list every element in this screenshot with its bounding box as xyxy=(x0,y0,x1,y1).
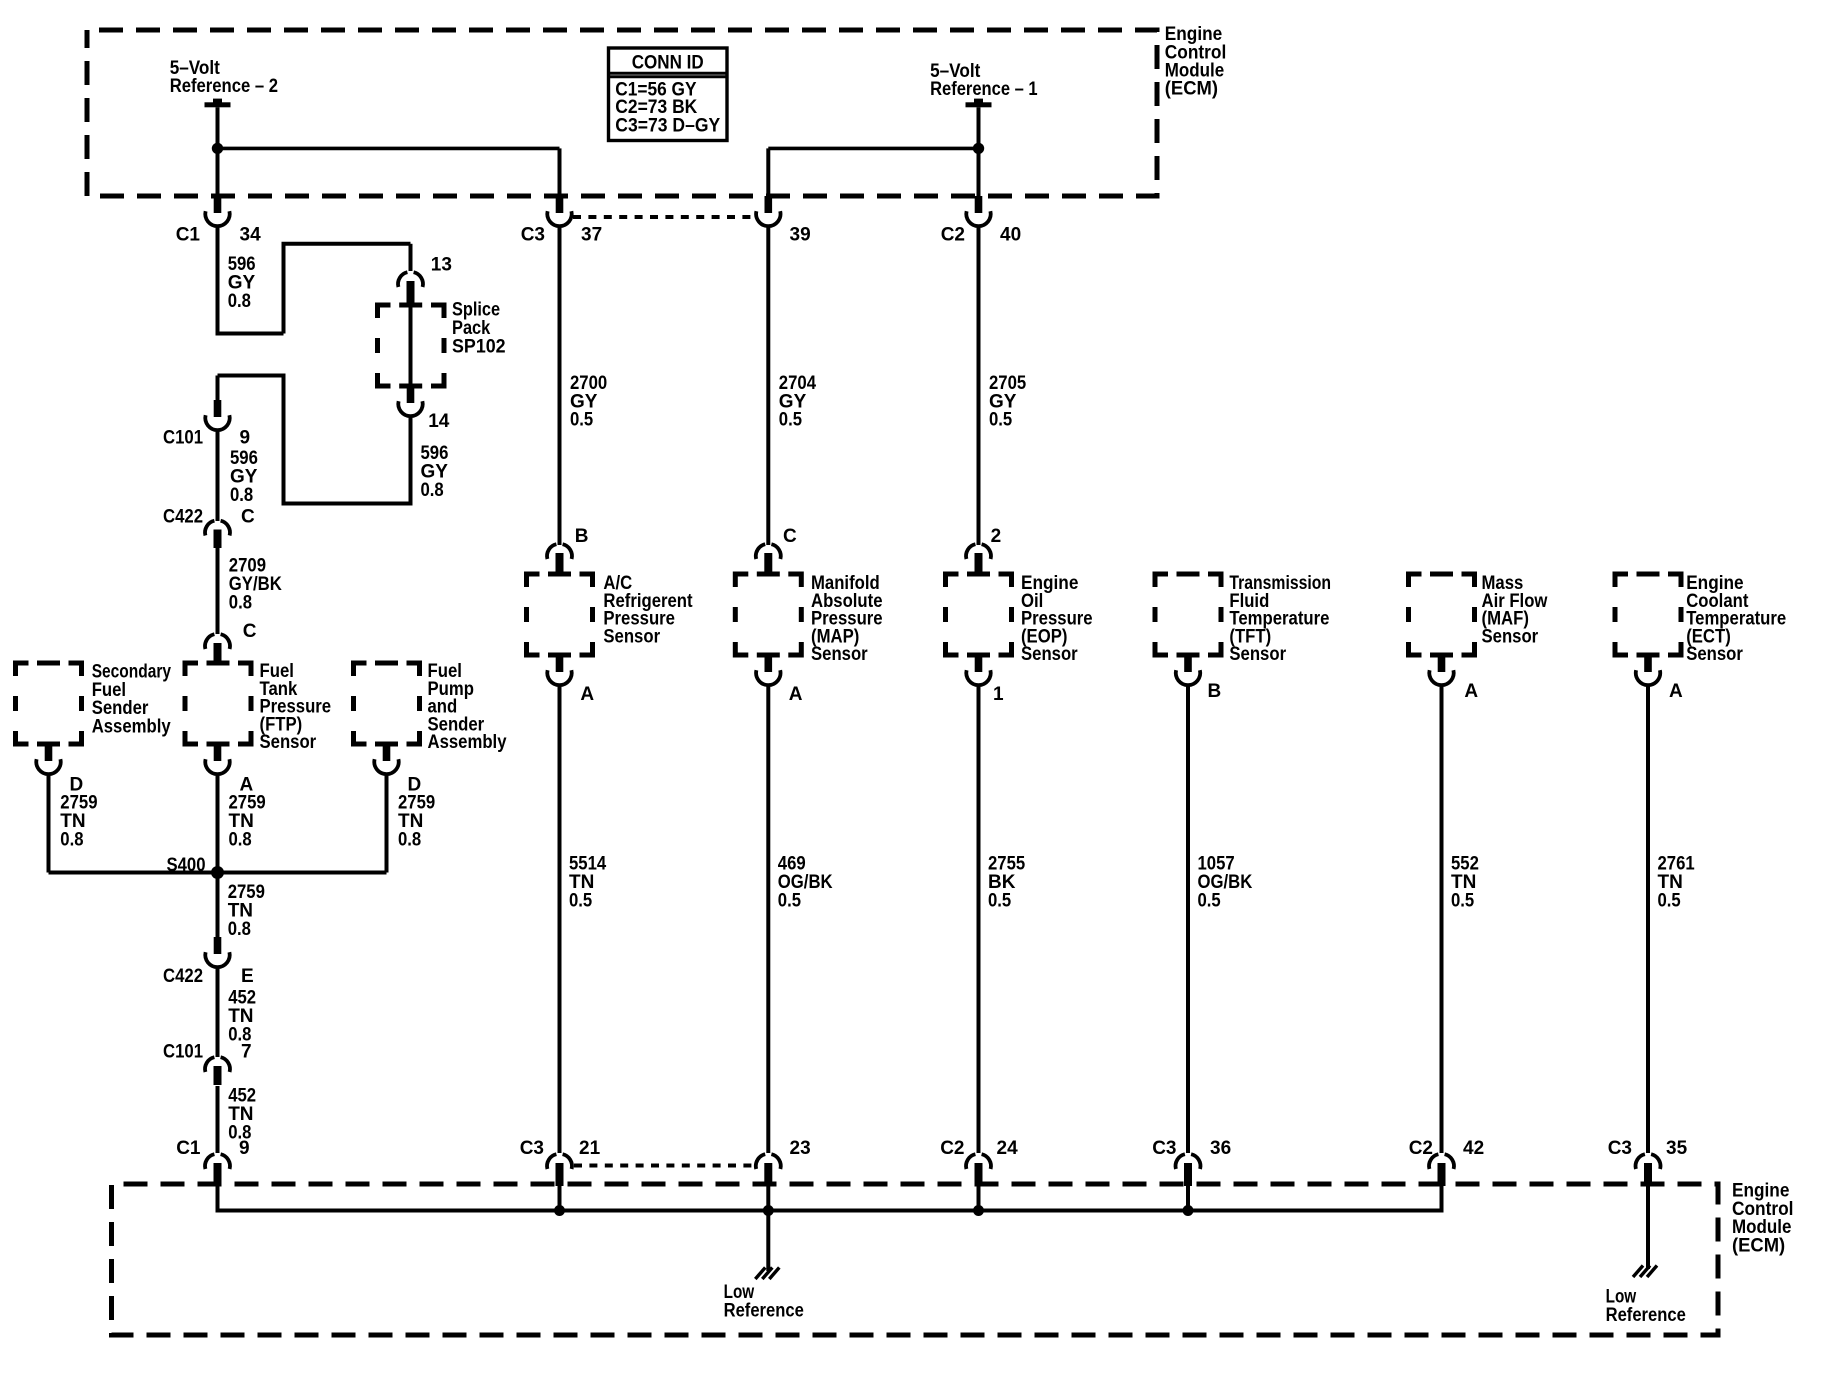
svg-text:C3: C3 xyxy=(1152,1138,1176,1159)
wire 2700 GY 0.5 xyxy=(558,226,562,545)
svg-text:0.8: 0.8 xyxy=(229,830,252,851)
connector sensor bottom pin A (x=1441.5) xyxy=(1438,655,1446,672)
svg-text:Assembly: Assembly xyxy=(92,716,171,737)
svg-text:C3=73 D–GY: C3=73 D–GY xyxy=(615,115,720,136)
wire 452 TN upper xyxy=(216,967,220,1057)
svg-text:C3: C3 xyxy=(1608,1138,1632,1159)
svg-text:0.5: 0.5 xyxy=(570,410,594,431)
svg-text:Sensor: Sensor xyxy=(1482,626,1539,647)
connector sensor top pin C xyxy=(756,544,765,559)
svg-text:40: 40 xyxy=(1000,224,1021,245)
wire drop to bus (x=978.5) xyxy=(977,1186,981,1211)
connector secondary sender pin D xyxy=(45,744,53,761)
wire 2761 TN xyxy=(1646,685,1650,1153)
svg-text:37: 37 xyxy=(581,224,602,245)
node bus junction (x=1188.0) xyxy=(1183,1205,1194,1216)
svg-text:C2: C2 xyxy=(1409,1138,1433,1159)
connector C101 pin 9 xyxy=(214,400,222,417)
svg-text:0.5: 0.5 xyxy=(989,410,1013,431)
wire secondary sender to S400 xyxy=(47,774,51,873)
svg-text:9: 9 xyxy=(239,1138,250,1159)
wire 5V ref-2 horizontal to C3-37 xyxy=(218,147,560,151)
wire down to pin 39 xyxy=(766,148,770,196)
node junction 5V ref-2 xyxy=(212,143,223,154)
wire 596 to C422 xyxy=(216,430,220,521)
svg-text:C: C xyxy=(241,506,255,527)
wire FTP to S400 xyxy=(216,774,220,873)
connector C101 pin 7 xyxy=(205,1057,214,1072)
svg-text:Sensor: Sensor xyxy=(1229,644,1286,665)
wire down to C3-37 xyxy=(558,148,562,196)
svg-text:23: 23 xyxy=(790,1138,811,1159)
node bus junction (x=978.5) xyxy=(973,1205,984,1216)
svg-text:36: 36 xyxy=(1210,1138,1231,1159)
dotted connector join 21-23 xyxy=(574,1164,753,1168)
ground low reference (right) xyxy=(1633,1266,1643,1278)
wire drop to bus (x=559.5) xyxy=(558,1186,562,1211)
wire fuel pump to S400 xyxy=(385,774,389,873)
svg-text:0.5: 0.5 xyxy=(778,890,802,911)
svg-text:C2: C2 xyxy=(941,224,965,245)
svg-text:B: B xyxy=(575,526,589,547)
connector sensor top pin B xyxy=(547,544,556,559)
connector C2 pin 24 xyxy=(966,1154,975,1169)
wire 1057 OG/BK xyxy=(1186,685,1190,1153)
svg-text:C1: C1 xyxy=(176,224,201,245)
connector C3 pin 21 xyxy=(547,1154,556,1169)
wire 452 TN lower xyxy=(216,1086,220,1153)
svg-text:0.8: 0.8 xyxy=(230,485,253,506)
wire 2705 GY 0.5 xyxy=(977,226,981,545)
ground low reference (left) xyxy=(755,1268,765,1280)
wire 2759 below S400 xyxy=(216,873,220,940)
svg-text:0.5: 0.5 xyxy=(779,410,803,431)
svg-text:0.8: 0.8 xyxy=(421,480,444,501)
svg-text:1: 1 xyxy=(993,684,1004,705)
connector C1 pin 34 xyxy=(214,196,222,213)
ECT sensor box (dashed) xyxy=(1615,574,1681,655)
CONN ID table box xyxy=(609,48,728,141)
svg-text:14: 14 xyxy=(428,411,450,432)
wire 2755 BK xyxy=(977,685,981,1153)
connector C1 pin 9 (bottom) xyxy=(205,1154,214,1169)
svg-text:E: E xyxy=(241,966,254,987)
svg-text:C: C xyxy=(783,526,797,547)
svg-text:0.8: 0.8 xyxy=(229,592,252,613)
svg-text:C1: C1 xyxy=(176,1138,201,1159)
connector C422 pin C (upper) xyxy=(205,521,214,536)
dotted connector join 37-39 xyxy=(573,215,757,219)
wire 596 from splice to C101 xyxy=(409,416,413,504)
svg-text:0.5: 0.5 xyxy=(1198,890,1222,911)
svg-text:Sensor: Sensor xyxy=(1686,644,1743,665)
node splice S400 xyxy=(211,866,224,879)
connector fuel pump pin D xyxy=(383,744,391,761)
splice pack SP102 box (dashed) xyxy=(378,305,445,386)
connector sensor bottom pin A (x=1648.0) xyxy=(1644,655,1652,672)
connector pin 39 xyxy=(765,196,773,213)
wire 5514 TN xyxy=(558,685,562,1153)
svg-text:9: 9 xyxy=(240,427,251,448)
svg-text:C3: C3 xyxy=(521,224,545,245)
wire 5V ref-1 horizontal to pin 39 xyxy=(768,147,978,151)
connector C2 pin 40 xyxy=(975,196,983,213)
svg-text:A: A xyxy=(789,684,803,705)
connector sensor bottom pin A (x=559.5) xyxy=(556,655,564,672)
svg-text:Sensor: Sensor xyxy=(1021,644,1078,665)
MAF sensor box (dashed) xyxy=(1409,574,1475,655)
svg-text:0.5: 0.5 xyxy=(1451,890,1475,911)
svg-text:S400: S400 xyxy=(167,855,206,876)
node bus junction (x=559.5) xyxy=(554,1205,565,1216)
svg-text:Reference: Reference xyxy=(724,1301,804,1322)
svg-text:C101: C101 xyxy=(163,427,203,448)
connector sensor bottom pin A (x=768.3) xyxy=(765,655,773,672)
svg-text:24: 24 xyxy=(997,1138,1019,1159)
EOP sensor box (dashed) xyxy=(946,574,1012,655)
connector C3 pin 35 xyxy=(1636,1154,1645,1169)
svg-text:B: B xyxy=(1208,681,1222,702)
svg-text:(ECM): (ECM) xyxy=(1732,1235,1785,1256)
connector FTP pin C xyxy=(205,634,214,649)
svg-text:7: 7 xyxy=(241,1042,252,1063)
wire to low reference ground (right) xyxy=(1646,1186,1650,1269)
connector splice pin 14 xyxy=(407,386,415,403)
wire 5V ref-1 vertical xyxy=(977,107,981,196)
fuel pump and sender assembly box (dashed) xyxy=(354,663,420,744)
node junction 5V ref-1 xyxy=(973,143,984,154)
connector pin 23 xyxy=(756,1154,765,1169)
connector FTP pin A xyxy=(214,744,222,761)
svg-text:A: A xyxy=(580,684,594,705)
svg-text:C422: C422 xyxy=(163,966,203,987)
svg-text:Assembly: Assembly xyxy=(428,732,507,753)
connector sensor bottom pin B (x=1188.0) xyxy=(1184,655,1192,672)
terminal 5-Volt Reference - 2 xyxy=(205,102,231,107)
wire low reference bus xyxy=(216,1186,220,1211)
secondary fuel sender assembly box (dashed) xyxy=(16,663,82,744)
ECM bottom module box (dashed) xyxy=(112,1184,1719,1335)
svg-text:21: 21 xyxy=(579,1138,601,1159)
svg-text:0.8: 0.8 xyxy=(228,291,251,312)
svg-text:35: 35 xyxy=(1666,1138,1688,1159)
svg-text:C2: C2 xyxy=(940,1138,964,1159)
svg-text:42: 42 xyxy=(1463,1138,1484,1159)
svg-text:Sensor: Sensor xyxy=(811,644,868,665)
wire 552 TN xyxy=(1440,685,1444,1153)
svg-text:SP102: SP102 xyxy=(452,337,506,358)
ECM top module box (dashed) xyxy=(87,30,1157,196)
svg-text:C3: C3 xyxy=(520,1138,544,1159)
svg-text:A: A xyxy=(1669,681,1683,702)
wire 469 OG/BK xyxy=(766,685,770,1153)
wire through splice pack xyxy=(409,284,413,392)
svg-text:0.5: 0.5 xyxy=(988,890,1012,911)
wire 2709 GY/BK xyxy=(216,548,220,634)
connector sensor bottom pin 1 (x=978.5) xyxy=(975,655,983,672)
svg-text:Reference: Reference xyxy=(1606,1305,1686,1326)
svg-text:A: A xyxy=(1464,681,1478,702)
svg-text:0.5: 0.5 xyxy=(569,890,593,911)
node bus junction (x=768.3) xyxy=(763,1205,774,1216)
svg-text:Sensor: Sensor xyxy=(603,626,660,647)
wire 596 from C1-34 to splice SP102 xyxy=(216,226,220,334)
svg-text:34: 34 xyxy=(240,224,262,245)
connector C422 pin E xyxy=(214,937,222,954)
svg-text:0.8: 0.8 xyxy=(398,830,421,851)
svg-text:0.8: 0.8 xyxy=(228,919,251,940)
svg-text:Sensor: Sensor xyxy=(260,732,317,753)
svg-text:C422: C422 xyxy=(163,506,203,527)
svg-text:13: 13 xyxy=(431,255,452,276)
svg-text:(ECM): (ECM) xyxy=(1165,79,1218,100)
connector C3 pin 37 xyxy=(556,196,564,213)
svg-text:C101: C101 xyxy=(163,1042,203,1063)
A/C refrigerant pressure sensor box (dashed) xyxy=(527,574,593,655)
wire to low reference ground (left) xyxy=(766,1211,770,1272)
svg-text:2: 2 xyxy=(991,526,1002,547)
svg-text:39: 39 xyxy=(790,224,811,245)
MAP sensor box (dashed) xyxy=(735,574,801,655)
wire drop to bus (x=1188.0) xyxy=(1186,1186,1190,1211)
connector splice pin 13 xyxy=(398,272,407,287)
svg-text:CONN ID: CONN ID xyxy=(632,53,704,74)
svg-text:C: C xyxy=(243,621,257,642)
connector C3 pin 36 xyxy=(1176,1154,1185,1169)
wire 5V ref-2 vertical xyxy=(216,107,220,196)
svg-text:Reference – 2: Reference – 2 xyxy=(170,76,278,97)
connector sensor top pin 2 xyxy=(966,544,975,559)
wire drop to bus (x=768.3) xyxy=(766,1186,770,1211)
connector C2 pin 42 xyxy=(1429,1154,1438,1169)
svg-text:0.8: 0.8 xyxy=(60,830,83,851)
wire 2704 GY 0.5 xyxy=(766,226,770,545)
TFT sensor box (dashed) xyxy=(1155,574,1221,655)
fuel tank pressure FTP sensor box (dashed) xyxy=(185,663,251,744)
svg-text:Reference – 1: Reference – 1 xyxy=(930,79,1038,100)
terminal 5-Volt Reference - 1 xyxy=(966,102,992,107)
svg-text:0.5: 0.5 xyxy=(1658,890,1682,911)
